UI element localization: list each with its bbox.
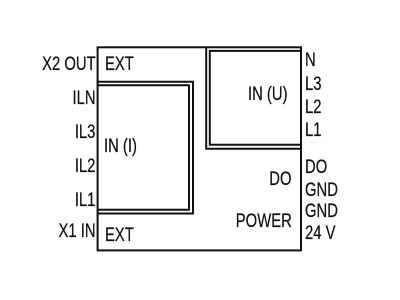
terminal label DO — [305, 158, 327, 177]
terminal label IL2 — [75, 157, 96, 176]
block label IN (U) — [248, 85, 288, 104]
IN(I) block outer border — [98, 82, 193, 214]
terminal label N — [305, 51, 316, 70]
section label POWER — [236, 212, 292, 231]
section label DO (inside) — [269, 170, 291, 189]
terminal label L3 — [305, 75, 321, 94]
terminal label X2 OUT — [42, 55, 96, 74]
terminal label GND (upper) — [305, 181, 338, 200]
terminal label L1 — [305, 121, 321, 140]
IN(U) block inner border — [210, 51, 301, 145]
terminal label X1 IN — [58, 222, 95, 241]
section label EXT (top) — [105, 55, 134, 74]
terminal label 24 V — [305, 224, 335, 243]
terminal label ILN — [72, 89, 95, 108]
terminal label IL3 — [75, 123, 96, 142]
section label EXT (bottom) — [105, 226, 134, 245]
block label IN (I) — [104, 137, 137, 156]
IN(U) block outer border — [206, 47, 301, 149]
IN(I) block inner border — [98, 85, 189, 210]
terminal label IL1 — [75, 191, 96, 210]
module outer border — [98, 47, 301, 250]
terminal label GND (lower) — [305, 202, 338, 221]
terminal label L2 — [305, 98, 321, 117]
